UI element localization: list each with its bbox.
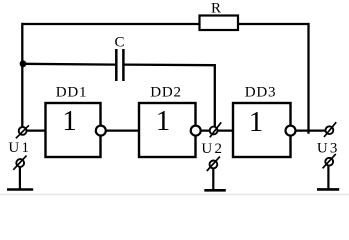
value label 1 (DD3 function symbol) [249,106,264,138]
label DD1 [56,85,88,101]
node U3 probe terminal on wire [324,122,336,137]
node U2 probe terminal on wire [210,122,221,137]
ground (U1) [7,188,33,191]
wire: capacitor branch left segment [22,63,115,66]
label U1 [8,140,31,156]
label U3 [317,140,340,156]
capacitor C [116,49,123,81]
svg-text:DD3: DD3 [245,85,277,101]
logic gate DD3 (inverter body) [233,103,291,157]
inversion bubble at DD2 output [191,126,201,136]
label C [114,34,124,50]
wire: top feedback line right segment (resistor R to right corner) [238,23,309,25]
svg-text:U1: U1 [8,140,31,156]
ground probe terminal for U3 [323,154,336,168]
svg-text:1: 1 [62,105,77,137]
ground (U3) [317,188,339,191]
svg-text:DD1: DD1 [56,85,88,101]
junction node dot (left vertical / capacitor branch) [20,60,27,67]
svg-text:U3: U3 [317,140,340,156]
wire: faint page separator line [0,194,349,196]
label U2 [201,141,224,157]
ground (U2) [204,189,226,192]
ground probe terminal for U1 [13,156,26,170]
wire: U2 ground stub [212,168,214,189]
label DD2 [150,85,182,101]
wire: capacitor branch right segment with drop to U2 node [125,65,215,126]
svg-text:C: C [114,34,124,50]
svg-text:1: 1 [249,106,264,138]
wire: DD3 output to U3 probe [295,129,326,131]
label R [211,0,221,16]
svg-text:1: 1 [156,105,171,137]
value label 1 (DD2 function symbol) [156,105,171,137]
logic gate DD1 (inverter body) [46,103,101,157]
wire: U3 ground stub [327,166,329,189]
svg-text:U2: U2 [201,141,224,157]
label DD3 [245,85,277,101]
wire: DD1 output to DD2 input [106,129,139,131]
node U1 probe terminal on wire [16,125,29,138]
wire: left vertical (top line down to U1 probe) [21,23,23,127]
svg-text:R: R [211,0,221,16]
wire: DD2 output to DD3 input (through node U2) [201,129,233,131]
value label 1 (DD1 function symbol) [62,105,77,137]
logic gate DD2 (inverter body) [139,103,196,157]
svg-text:DD2: DD2 [150,85,182,101]
wire: right vertical drop to DD3 output node [307,23,309,134]
inversion bubble at DD3 output [286,126,296,136]
wire: top feedback line left segment (node U1 to resistor R) [22,23,199,25]
wire: U1 probe to DD1 input [24,129,46,131]
resistor R [200,16,239,31]
ground probe terminal for U2 [207,157,220,171]
inversion bubble at DD1 output [96,126,106,136]
wire: U1 ground stub [19,167,21,189]
